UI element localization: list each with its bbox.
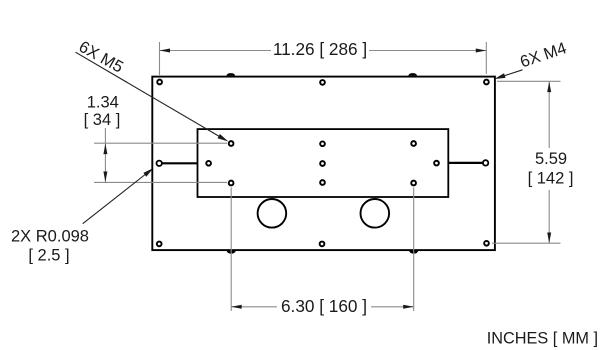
- bottom dimension right arrow: [403, 305, 414, 309]
- M5 hole row3 center: [320, 180, 325, 185]
- left slot circle R2.5: [157, 161, 162, 166]
- left keyhole slot: [160, 162, 198, 164]
- M5 hole row3 right: [411, 181, 416, 186]
- top dimension extension line right: [485, 42, 487, 74]
- M5 hole row3 left: [229, 181, 234, 186]
- left dimension extension line bottom: [94, 181, 227, 183]
- top dimension line: [160, 50, 272, 52]
- left dimension extension line top: [94, 142, 227, 144]
- top edge tab left: [226, 73, 235, 76]
- top dimension extension line left: [159, 42, 161, 75]
- svg-text:INCHES [ MM ]: INCHES [ MM ]: [487, 330, 598, 348]
- right slot circle R2.5: [483, 160, 488, 165]
- M5 hole row2 center: [320, 161, 325, 166]
- bottom dimension line: [231, 306, 277, 308]
- top dimension left arrow: [160, 49, 171, 53]
- left mounting lug circle: [258, 199, 287, 228]
- M4 hole top-left: [157, 80, 162, 85]
- top edge tab right: [408, 73, 417, 76]
- M5 hole row2 right: [434, 161, 439, 166]
- M4 hole bottom-center: [320, 242, 325, 247]
- svg-text:[ 2.5 ]: [ 2.5 ]: [28, 247, 69, 265]
- svg-text:11.26 [ 286 ]: 11.26 [ 286 ]: [273, 39, 367, 59]
- right mounting lug circle: [361, 199, 390, 228]
- left dimension up arrow: [103, 144, 107, 155]
- right dimension bottom arrow: [547, 233, 551, 244]
- M5 hole row1 right: [411, 141, 416, 146]
- top dimension right arrow: [476, 49, 487, 53]
- bottom dimension left arrow: [231, 305, 242, 309]
- svg-text:6X M5: 6X M5: [76, 38, 126, 77]
- left dimension line: [104, 128, 106, 182]
- svg-text:[ 34 ]: [ 34 ]: [84, 111, 121, 129]
- leader line 6X M4: [498, 70, 523, 78]
- M4 hole top-right: [484, 80, 489, 85]
- svg-text:1.34: 1.34: [87, 93, 119, 111]
- right dimension extension line top: [497, 80, 561, 82]
- bottom dimension extension line left: [230, 188, 232, 312]
- leader arrow 6X M5: [218, 134, 229, 142]
- M5 hole row1 left: [229, 141, 234, 146]
- leader line 6X M5: [76, 52, 223, 138]
- bottom edge tab left: [227, 251, 236, 254]
- leader arrow 2X R0.098: [143, 168, 153, 177]
- right keyhole slot: [448, 162, 485, 164]
- M5 hole row2 left: [206, 161, 211, 166]
- M4 hole bottom-right: [484, 241, 489, 246]
- svg-text:6.30 [ 160 ]: 6.30 [ 160 ]: [281, 296, 367, 316]
- svg-text:5.59: 5.59: [535, 150, 567, 168]
- inner plate outline: [198, 129, 449, 197]
- right dimension extension line bottom: [492, 242, 561, 244]
- bottom dimension extension line right: [413, 188, 415, 312]
- svg-text:2X R0.098: 2X R0.098: [11, 228, 89, 246]
- leader arrow 6X M4: [494, 73, 505, 79]
- left dimension down arrow: [103, 172, 107, 183]
- bottom edge tab right: [409, 251, 418, 254]
- M4 hole top-center: [320, 80, 325, 85]
- right dimension line: [548, 82, 550, 148]
- M5 hole row1 center: [320, 141, 325, 146]
- outer plate outline: [152, 77, 495, 251]
- right dimension top arrow: [547, 82, 551, 93]
- M4 hole bottom-left: [157, 242, 162, 247]
- leader line 2X R0.098: [83, 172, 149, 224]
- svg-text:6X M4: 6X M4: [518, 39, 569, 71]
- svg-text:[ 142 ]: [ 142 ]: [528, 170, 574, 188]
